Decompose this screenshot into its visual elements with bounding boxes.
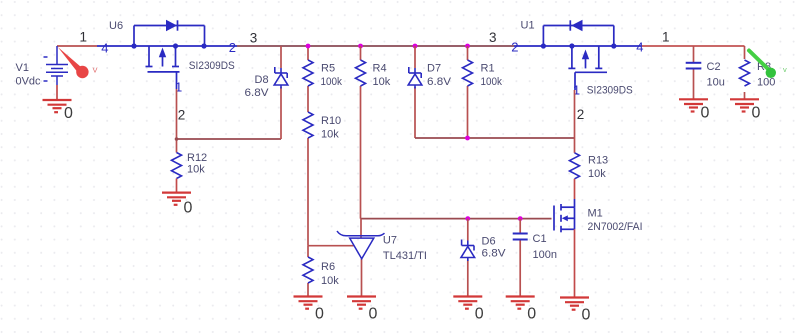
junction R1 bottom on gate link (465, 136, 470, 141)
svg-text:SI2309DS: SI2309DS (189, 60, 235, 72)
svg-text:3: 3 (489, 30, 497, 45)
svg-text:0: 0 (475, 306, 484, 323)
resistor R4 (356, 44, 391, 219)
resistor R1 (463, 44, 503, 138)
voltage source V1 (16, 46, 69, 88)
zener diode D8 (245, 46, 288, 139)
svg-text:R13: R13 (588, 155, 608, 167)
wire top rail U6 pin 2 to U1 pin 2 (237, 45, 514, 47)
svg-text:R1: R1 (481, 63, 495, 75)
svg-text:M1: M1 (588, 208, 603, 220)
svg-text:10k: 10k (588, 168, 606, 180)
node 3 (net label, right) (489, 30, 497, 45)
svg-text:R10: R10 (321, 115, 341, 127)
svg-text:2: 2 (511, 40, 518, 55)
node 1 (net label, right) (662, 30, 670, 45)
svg-text:6.8V: 6.8V (482, 248, 507, 260)
svg-text:10k: 10k (321, 275, 339, 287)
node 2 (net label, U6 gate) (178, 108, 186, 123)
wire R12 to ground (176, 179, 178, 193)
svg-text:1: 1 (662, 30, 670, 45)
ground (730, 99, 761, 121)
wire R6 chain (307, 246, 309, 297)
wire gate-D8 link (175, 137, 281, 141)
svg-text:0: 0 (184, 200, 193, 217)
svg-text:1: 1 (80, 30, 88, 45)
svg-text:6.8V: 6.8V (427, 76, 452, 88)
svg-text:0Vdc: 0Vdc (16, 76, 41, 88)
wire gate link right (415, 137, 575, 139)
svg-text:U6: U6 (109, 20, 123, 32)
wire U6 gate chain (176, 89, 178, 153)
shunt regulator U7 TL431 (308, 219, 427, 297)
svg-text:10u: 10u (707, 77, 725, 89)
svg-text:TL431/TI: TL431/TI (383, 250, 427, 262)
svg-text:D8: D8 (255, 74, 269, 86)
resistor R6 (303, 257, 339, 287)
resistor R5 + R10 chain wires (307, 46, 309, 246)
capacitor C2 (686, 46, 725, 99)
resistor R13 (570, 153, 609, 180)
ground (453, 297, 484, 323)
capacitor C1 (513, 219, 557, 297)
wire U1 gate chain (574, 90, 576, 153)
svg-text:100n: 100n (533, 249, 557, 261)
zener diode D6 (461, 219, 506, 297)
svg-text:V: V (93, 66, 98, 75)
junction R5 tap on top rail (306, 44, 311, 49)
svg-text:0: 0 (752, 104, 761, 121)
svg-text:100k: 100k (321, 76, 343, 88)
resistor R10 (303, 112, 341, 141)
svg-text:R12: R12 (187, 152, 207, 164)
svg-text:10k: 10k (321, 129, 339, 141)
ground (560, 298, 591, 324)
resistor R12 (172, 152, 208, 179)
svg-text:0: 0 (369, 306, 378, 323)
svg-text:2: 2 (577, 107, 585, 122)
svg-text:100: 100 (757, 77, 775, 89)
svg-text:D7: D7 (427, 63, 441, 75)
svg-text:U7: U7 (383, 235, 397, 247)
wire V1 minus to ground (56, 85, 58, 100)
svg-text:C2: C2 (707, 61, 721, 73)
wire top rail U1 pin 4 to R8 (641, 45, 745, 47)
svg-text:10k: 10k (187, 164, 205, 176)
svg-text:v: v (783, 65, 787, 74)
svg-text:R4: R4 (373, 63, 387, 75)
ground (294, 297, 325, 323)
junction C1 tap on M1 gate line (518, 216, 523, 221)
nmos M1 (554, 199, 643, 233)
pmos U6 (97, 20, 237, 95)
zener diode D7 (408, 44, 451, 138)
svg-text:D6: D6 (482, 235, 496, 247)
wire top rail V1 to U6 pin 4 (57, 45, 97, 47)
resistor R5 (303, 60, 342, 88)
svg-text:100k: 100k (481, 76, 503, 88)
svg-text:0: 0 (582, 307, 591, 324)
node 2 (net label, U1 gate) (577, 107, 585, 122)
svg-text:4: 4 (636, 40, 643, 55)
wire R13 to M1 drain (574, 179, 576, 199)
wire M1 source (574, 229, 576, 297)
svg-text:2: 2 (229, 40, 236, 55)
ground (347, 297, 378, 323)
ground (679, 99, 710, 121)
pmos U1 (511, 20, 643, 98)
svg-text:R6: R6 (321, 261, 335, 273)
ground (162, 193, 193, 217)
svg-text:U1: U1 (521, 20, 535, 32)
junction D6 tap on M1 gate line (465, 216, 470, 221)
svg-text:R5: R5 (321, 63, 335, 75)
ground (43, 100, 74, 122)
wire gate line (361, 218, 552, 220)
svg-text:2: 2 (178, 108, 186, 123)
voltage marker R8 (green probe) (749, 51, 787, 79)
voltage marker V1 (red probe) (58, 47, 98, 78)
svg-text:V1: V1 (16, 62, 29, 74)
svg-text:3: 3 (250, 31, 258, 46)
ground (506, 297, 537, 323)
svg-text:0: 0 (527, 306, 536, 323)
svg-text:C1: C1 (533, 233, 547, 245)
svg-text:6.8V: 6.8V (245, 87, 270, 99)
svg-text:0: 0 (64, 105, 73, 122)
resistor R8 (740, 46, 776, 99)
svg-text:0: 0 (701, 104, 710, 121)
node 3 (net label) (250, 31, 258, 46)
svg-text:4: 4 (101, 40, 108, 55)
svg-text:10k: 10k (373, 76, 391, 88)
svg-text:0: 0 (315, 306, 324, 323)
svg-text:SI2309DS: SI2309DS (587, 85, 633, 97)
node 1 (net label) (80, 30, 88, 45)
svg-text:2N7002/FAI: 2N7002/FAI (588, 221, 643, 233)
